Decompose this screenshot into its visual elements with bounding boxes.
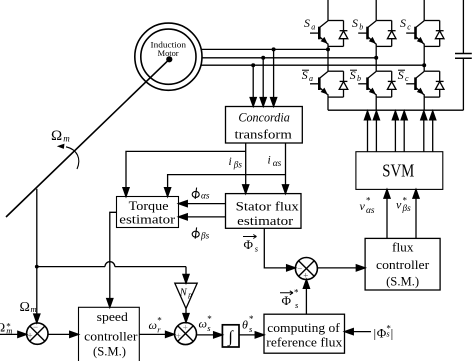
svg-text:ω: ω — [199, 317, 207, 331]
label Sa-bar — [302, 68, 313, 83]
svg-text:p: p — [187, 290, 192, 299]
wire SVM gate drive 4 — [401, 111, 407, 152]
wire SVM gate drive 5 — [421, 111, 427, 152]
svg-text:b: b — [359, 22, 363, 31]
svg-text:flux: flux — [392, 241, 414, 255]
wire leg A mid — [327, 46, 329, 71]
label omega-s-star — [199, 314, 213, 333]
wire i-alpha branch to torque estimator — [168, 175, 286, 197]
wire computing up to flux summer — [305, 288, 307, 314]
wire i-beta from Concordia — [245, 143, 247, 194]
svg-text:Ω: Ω — [20, 300, 30, 315]
svg-text:a: a — [309, 74, 313, 83]
node phase C-leg — [422, 63, 426, 67]
svg-text:ω: ω — [149, 318, 157, 332]
block speed controller — [79, 307, 140, 361]
wire SVM gate drive 2 — [373, 111, 379, 152]
capacitor C bottom lead — [462, 58, 464, 110]
svg-text:N: N — [179, 287, 188, 298]
label Sb — [352, 16, 363, 32]
svg-text:S: S — [400, 16, 406, 30]
node speed branch — [35, 265, 39, 269]
svg-text:v: v — [396, 198, 402, 212]
label phi-alpha-s — [192, 188, 210, 202]
svg-text:b: b — [357, 74, 361, 83]
wire integrator to computing — [239, 334, 255, 336]
svg-text:−: − — [297, 263, 302, 273]
capacitor C plates — [455, 53, 472, 55]
label Sa — [304, 16, 315, 32]
svg-text:i: i — [229, 156, 232, 168]
wire v-alpha to SVM — [386, 198, 388, 238]
block Stator flux estimator — [226, 194, 302, 229]
block flux controller — [365, 238, 440, 290]
transistor Sc-bar (IGBT with antiparallel diode) — [406, 71, 444, 97]
wire SVM gate drive 3 — [392, 111, 398, 152]
svg-text:Φ: Φ — [377, 325, 387, 340]
label theta-s-star — [242, 314, 254, 334]
label omega-r-star — [149, 315, 163, 334]
label Sb-bar — [350, 68, 361, 83]
svg-text:estimator: estimator — [119, 213, 175, 227]
svg-text:θ: θ — [242, 318, 248, 332]
node tap ic — [251, 63, 255, 67]
label Sc — [400, 16, 411, 32]
svg-text:+: + — [28, 331, 33, 341]
induction motor M outer circle — [135, 23, 202, 90]
svg-text:+: + — [176, 331, 181, 341]
wire flux summer to flux controller — [317, 267, 356, 269]
summer speed — [27, 323, 48, 344]
label Phi-s vector — [243, 235, 259, 254]
wire phase B — [202, 57, 376, 59]
svg-text:transform: transform — [235, 127, 292, 142]
summer omega — [175, 323, 197, 345]
svg-text:(S.M.): (S.M.) — [386, 275, 419, 289]
svg-text:(S.M.): (S.M.) — [93, 345, 126, 359]
svg-text:Stator flux: Stator flux — [236, 200, 299, 214]
svg-text:m: m — [63, 134, 70, 144]
svg-text:βs: βs — [402, 203, 412, 213]
svg-text:c: c — [407, 22, 411, 31]
transistor Sa (IGBT with antiparallel diode) — [310, 21, 348, 47]
svg-text:αs: αs — [273, 159, 282, 169]
svg-text:+: + — [303, 270, 308, 280]
svg-text:computing of: computing of — [267, 321, 340, 335]
wire tap ib down — [262, 58, 264, 107]
svg-text:Φ: Φ — [244, 237, 254, 252]
rotation arc arrow — [66, 147, 79, 169]
wire torque output down to speed controller — [110, 212, 117, 298]
label Sc-bar — [398, 68, 409, 83]
svg-text:+: + — [183, 323, 188, 333]
block Torque estimator — [117, 197, 179, 228]
wire flux magnitude input — [353, 331, 371, 333]
svg-text:v: v — [360, 199, 366, 213]
svg-text:|: | — [391, 326, 394, 341]
wire phi-alpha stator to torque — [187, 203, 225, 205]
block computing of reference flux — [264, 314, 345, 353]
svg-text:Ω: Ω — [0, 320, 5, 335]
wire speed to Np with hop — [37, 266, 105, 268]
wire phi-beta stator to torque — [187, 216, 225, 218]
wire summer2 to integrator — [197, 334, 214, 336]
label Phi-s-star vector — [280, 287, 299, 310]
svg-text:estimator: estimator — [237, 214, 293, 228]
wire DC bottom rail — [328, 109, 463, 111]
inverter leg A top rail wire — [327, 0, 329, 21]
label flux magnitude reference — [374, 323, 394, 340]
wire summer to speed controller — [48, 333, 70, 335]
node tap ib — [261, 56, 265, 60]
svg-text:a: a — [311, 22, 315, 31]
block Concordia transform — [226, 107, 303, 144]
wire leg A bottom — [327, 97, 329, 110]
wire phase A — [202, 48, 329, 50]
svg-text:controller: controller — [84, 330, 137, 344]
label Np — [179, 287, 193, 299]
node tap ia — [272, 47, 276, 51]
wire stator flux output Phi-s — [264, 228, 286, 268]
svg-text:Φ: Φ — [282, 293, 292, 308]
wire SVM gate drive 6 — [430, 111, 436, 152]
wire i-alpha from Concordia — [285, 143, 287, 194]
wire speed controller to summer2 — [139, 333, 165, 335]
svg-text:Torque: Torque — [129, 199, 170, 213]
transistor Sc (IGBT with antiparallel diode) — [406, 21, 444, 47]
induction motor M inner circle — [141, 29, 196, 84]
svg-text:Concordia: Concordia — [238, 111, 289, 125]
svg-text:Motor: Motor — [158, 48, 179, 58]
svg-text:i: i — [268, 155, 271, 167]
wire tap ia down — [273, 49, 275, 106]
wire speed reference input — [0, 333, 18, 335]
wire phase C — [202, 64, 425, 66]
svg-text:αs: αs — [201, 192, 210, 202]
wire leg C mid — [423, 46, 425, 71]
label Omega_m shaft — [51, 128, 70, 144]
svg-text:*: * — [294, 287, 299, 297]
transistor Sb-bar (IGBT with antiparallel diode) — [358, 71, 396, 97]
svg-text:αs: αs — [366, 206, 375, 216]
block SVM — [356, 152, 443, 190]
svg-text:βs: βs — [200, 230, 210, 240]
wire tap ic down — [252, 65, 254, 106]
wire Np to summer — [185, 309, 187, 315]
wire leg C bottom — [423, 97, 425, 110]
svg-text:S: S — [352, 16, 358, 30]
wire v-beta to SVM — [415, 198, 417, 238]
capacitor C top lead — [462, 0, 464, 54]
svg-text:SVM: SVM — [382, 161, 414, 181]
svg-text:βs: βs — [233, 160, 243, 170]
transistor Sa-bar (IGBT with antiparallel diode) — [310, 71, 348, 97]
svg-text:reference flux: reference flux — [266, 336, 343, 350]
label i-beta-s — [229, 156, 243, 170]
svg-text:|: | — [374, 326, 377, 341]
svg-text:speed: speed — [97, 310, 128, 324]
summer flux — [295, 258, 317, 280]
wire SVM gate drive 1 — [364, 111, 370, 152]
wire i-beta branch to torque estimator — [126, 151, 246, 196]
svg-text:m: m — [31, 304, 37, 314]
label v-alpha-s-star — [360, 196, 375, 217]
svg-text:−: − — [33, 322, 38, 332]
svg-text:*: * — [366, 196, 371, 206]
induction motor shaft center dot — [166, 56, 172, 62]
svg-text:controller: controller — [376, 258, 429, 272]
inverter leg B top rail wire — [375, 0, 377, 21]
svg-text:S: S — [304, 16, 310, 30]
wire speed sensor vertical — [36, 189, 38, 314]
inverter leg C top rail wire — [423, 0, 425, 21]
svg-text:Ω: Ω — [51, 128, 62, 144]
node phase A-leg — [326, 47, 330, 51]
block integrator — [222, 325, 239, 347]
label phi-beta-s — [192, 227, 209, 240]
wire leg B mid — [375, 46, 377, 71]
label Omega_m-star input — [0, 320, 12, 336]
transistor Sb (IGBT with antiparallel diode) — [358, 21, 396, 47]
svg-text:c: c — [405, 74, 409, 83]
label i-alpha-s — [268, 155, 282, 170]
induction motor label — [151, 39, 187, 58]
node phase B-leg — [374, 56, 378, 60]
svg-text:*: * — [249, 314, 254, 324]
label Omega_m lower — [20, 300, 37, 315]
shaft — [6, 59, 169, 217]
wire leg B bottom — [375, 97, 377, 110]
gain Np triangle — [175, 283, 197, 308]
label v-beta-s-star — [396, 195, 411, 213]
